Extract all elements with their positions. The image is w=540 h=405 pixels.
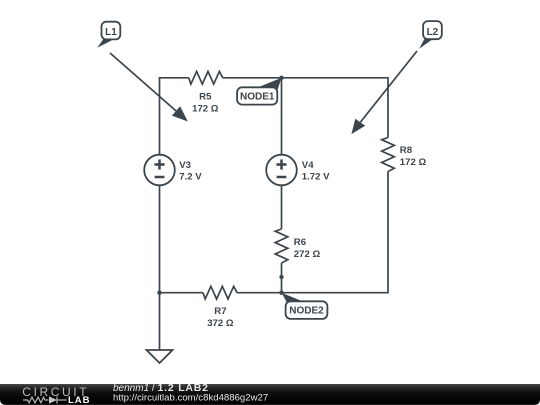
- label L2 box: [423, 21, 442, 39]
- wire R6 to bottom junction: [281, 263, 283, 293]
- resistor R7: [203, 286, 237, 299]
- ground: [147, 350, 173, 363]
- R6 value labels: [294, 237, 321, 260]
- junction dot below R6: [279, 275, 283, 279]
- resistor R5: [189, 71, 223, 84]
- svg-text:172 Ω: 172 Ω: [400, 157, 427, 168]
- CircuitLab logo resistor-diode glyph: [23, 396, 67, 403]
- R7 value labels: [207, 306, 234, 329]
- arrow annotation from L2: [351, 51, 417, 134]
- svg-text:V3: V3: [179, 160, 191, 171]
- junction dot at ground node: [157, 291, 161, 295]
- svg-text:LAB: LAB: [68, 395, 91, 405]
- voltage source V3: [144, 155, 175, 186]
- V3 value labels: [179, 160, 202, 183]
- arrow annotation from L1: [110, 53, 188, 122]
- wire V4 to R6: [281, 185, 283, 229]
- svg-text:L2: L2: [427, 27, 439, 38]
- label L2 pointer: [419, 39, 431, 49]
- resistor R6: [275, 229, 288, 263]
- flag NODE2 pointer: [282, 293, 304, 305]
- label L1 box: [102, 22, 121, 40]
- wire bottom-left segment: [160, 292, 204, 294]
- svg-text:NODE2: NODE2: [289, 305, 324, 316]
- wire right vertical lower: [237, 172, 388, 293]
- footer bar: [0, 384, 540, 405]
- svg-text:1.72 V: 1.72 V: [302, 172, 330, 183]
- wire to ground: [159, 293, 161, 350]
- svg-text:372 Ω: 372 Ω: [207, 318, 234, 329]
- V4 value labels: [302, 160, 330, 183]
- node NODE1 junction dot: [279, 76, 283, 80]
- wire top-left segment: [160, 78, 189, 155]
- svg-text:R7: R7: [214, 306, 226, 317]
- R5 value labels: [192, 91, 219, 114]
- wire top-right segment: [223, 78, 388, 138]
- flag NODE1 box: [237, 87, 277, 104]
- svg-text:7.2 V: 7.2 V: [179, 172, 202, 183]
- svg-text:R8: R8: [400, 145, 413, 156]
- svg-text:NODE1: NODE1: [240, 91, 275, 102]
- svg-text:V4: V4: [302, 160, 314, 171]
- wire left vertical lower: [159, 185, 161, 292]
- svg-text:R6: R6: [294, 237, 306, 248]
- resistor R8: [382, 138, 395, 172]
- svg-text:172 Ω: 172 Ω: [192, 103, 219, 114]
- flag NODE2 box: [286, 301, 328, 319]
- node NODE2 junction dot: [279, 291, 283, 295]
- flag NODE1 pointer: [257, 78, 282, 92]
- svg-text:http://circuitlab.com/c8kd4886: http://circuitlab.com/c8kd4886g2w27: [113, 392, 268, 403]
- svg-text:L1: L1: [105, 27, 117, 38]
- voltage source V4: [266, 155, 297, 186]
- wire middle vertical upper: [281, 78, 283, 155]
- svg-text:R5: R5: [199, 91, 212, 102]
- svg-text:272 Ω: 272 Ω: [294, 249, 321, 260]
- R8 value labels: [400, 145, 427, 168]
- label L1 pointer: [97, 39, 112, 48]
